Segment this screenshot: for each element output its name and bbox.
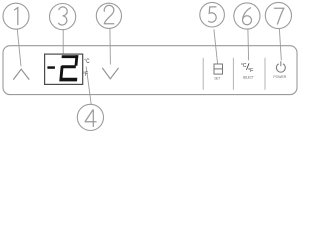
button divider 3: [264, 58, 266, 90]
callout circle 1: [3, 3, 29, 29]
POWER button icon: [276, 61, 285, 72]
callout circle 6: [234, 3, 260, 29]
leader line 3: [62, 30, 64, 54]
callout circle 2: [96, 3, 121, 28]
callout circle 5: [200, 2, 225, 27]
svg-text:°F: °F: [83, 72, 88, 78]
svg-text:POWER: POWER: [273, 75, 286, 79]
callout circle 3: [50, 4, 76, 30]
leader line 4: [86, 67, 91, 105]
leader line 5: [214, 29, 218, 64]
display minus sign: [47, 66, 55, 69]
callout circle 4: [77, 104, 103, 130]
leader line 1: [17, 29, 21, 66]
SELECT button icon (°C/°F): [241, 63, 254, 74]
display digit 2 (seven-segment): [59, 55, 78, 81]
control panel outline: [3, 46, 297, 95]
callout circle 7: [265, 2, 291, 28]
down button chevron: [102, 68, 118, 79]
button divider 2: [232, 58, 234, 90]
svg-text:°F: °F: [248, 68, 254, 74]
svg-text:°C: °C: [241, 63, 247, 69]
svg-text:°C: °C: [84, 59, 90, 65]
leader line 2: [109, 29, 112, 65]
temperature display box: [45, 54, 83, 84]
up button chevron: [13, 69, 29, 79]
leader line 7: [279, 29, 281, 61]
SET button icon: [214, 64, 223, 74]
button divider 1: [202, 58, 204, 90]
leader line 6: [247, 29, 250, 60]
svg-text:SELECT: SELECT: [243, 76, 254, 80]
svg-text:SET: SET: [214, 77, 220, 81]
